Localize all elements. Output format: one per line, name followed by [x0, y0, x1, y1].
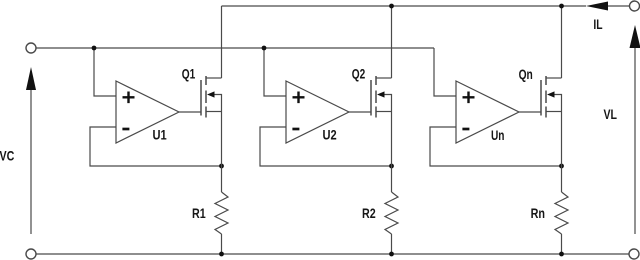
svg-text:R1: R1	[192, 205, 206, 221]
transistor Q2 source stub	[376, 111, 392, 113]
op-amp Un	[456, 81, 519, 143]
node U1 + rail junction	[92, 46, 97, 51]
node Rn top feedback junction	[559, 164, 564, 169]
transistor Q2 gate bar	[370, 80, 372, 116]
wire Un output to Qn gate	[519, 111, 541, 113]
transistor Qn gate bar	[540, 80, 542, 116]
terminal VC+ input (open circle)	[26, 43, 36, 53]
wire U2 - input feedback	[260, 127, 392, 166]
transistor Q2 body arrow	[377, 91, 385, 97]
svg-text:IL: IL	[593, 16, 603, 32]
svg-text:Qn: Qn	[519, 66, 533, 82]
transistor Qn body stub	[554, 95, 562, 112]
transistor Q2	[371, 76, 392, 118]
terminal IL output (open circle)	[630, 1, 640, 11]
transistor Q1 body arrow	[207, 91, 215, 97]
svg-text:VC: VC	[0, 147, 14, 163]
op-amp U2 - input symbol	[292, 128, 299, 131]
wire Q2 drain to top rail	[391, 6, 393, 78]
transistor Q1 source stub	[206, 111, 222, 113]
wire U2 output to Q2 gate	[349, 111, 371, 113]
IL arrowhead on top rail	[586, 2, 608, 11]
VC annotation arrow line	[30, 90, 32, 234]
wire Q1 drain to top rail	[221, 6, 223, 78]
svg-text:U2: U2	[323, 127, 337, 143]
wire Un - input feedback	[430, 127, 562, 166]
terminal VL- output (open circle)	[629, 249, 639, 259]
wire Q2 source down to R2	[391, 112, 393, 193]
transistor Q1 drain stub	[206, 77, 222, 79]
transistor Q1	[201, 76, 222, 118]
node R2 top feedback junction	[389, 164, 394, 169]
wire U1 output to Q1 gate	[179, 111, 201, 113]
op-amp U1	[116, 81, 179, 143]
wire R1 bottom to rail	[221, 234, 223, 254]
transistor Q1 channel segments	[205, 76, 207, 118]
node Rn bottom rail junction	[559, 252, 564, 257]
svg-text:R2: R2	[362, 205, 376, 221]
transistor Q2 drain stub	[376, 77, 392, 79]
transistor Qn	[541, 76, 562, 118]
wire R2 bottom to rail	[391, 234, 393, 254]
svg-text:Q1: Q1	[182, 66, 196, 82]
resistor Rn	[555, 192, 568, 234]
wire U2 + input from VC rail	[264, 48, 286, 96]
node R1 bottom rail junction	[219, 252, 224, 257]
svg-text:VL: VL	[604, 106, 618, 122]
wire VC+ rail	[36, 47, 434, 49]
node Q2 drain rail junction	[389, 4, 394, 9]
op-amp U2	[286, 81, 349, 143]
node R1 top feedback junction	[219, 164, 224, 169]
transistor Qn drain stub	[546, 77, 562, 79]
transistor Q1 body stub	[214, 95, 222, 112]
wire Q1 source down to R1	[221, 112, 223, 193]
wire Qn source down to Rn	[561, 112, 563, 193]
transistor Qn body arrow	[547, 91, 555, 97]
VC annotation arrowhead	[26, 67, 36, 90]
node R2 bottom rail junction	[389, 252, 394, 257]
wire IL arrow to terminal	[608, 5, 630, 7]
wire Un + input from VC rail	[434, 48, 456, 96]
wire bottom rail	[36, 253, 629, 255]
wire U1 + input from VC rail	[94, 48, 116, 96]
wire Qn drain to top rail	[561, 6, 563, 78]
VL annotation arrow line	[634, 48, 636, 234]
node U2 + rail junction	[262, 46, 267, 51]
svg-text:U1: U1	[153, 127, 167, 143]
svg-text:Un: Un	[491, 127, 505, 143]
op-amp U2 + input symbol	[293, 92, 305, 104]
op-amp U1 - input symbol	[122, 128, 129, 131]
transistor Qn source stub	[546, 111, 562, 113]
wire top load rail	[222, 5, 587, 7]
transistor Qn channel segments	[545, 76, 547, 118]
resistor R2	[385, 192, 398, 234]
wire U1 - input feedback	[90, 127, 222, 166]
svg-text:Rn: Rn	[531, 205, 545, 221]
op-amp Un + input symbol	[463, 92, 475, 104]
transistor Q2 body stub	[384, 95, 392, 112]
terminal VC- input (open circle)	[26, 249, 36, 259]
transistor Q2 channel segments	[375, 76, 377, 118]
wire Rn bottom to rail	[561, 234, 563, 254]
op-amp U1 + input symbol	[123, 92, 135, 104]
op-amp Un - input symbol	[462, 128, 469, 131]
resistor R1	[215, 192, 228, 234]
node Qn drain rail junction	[559, 4, 564, 9]
transistor Q1 gate bar	[200, 80, 202, 116]
VL annotation arrowhead	[630, 25, 640, 48]
svg-text:Q2: Q2	[352, 66, 366, 82]
